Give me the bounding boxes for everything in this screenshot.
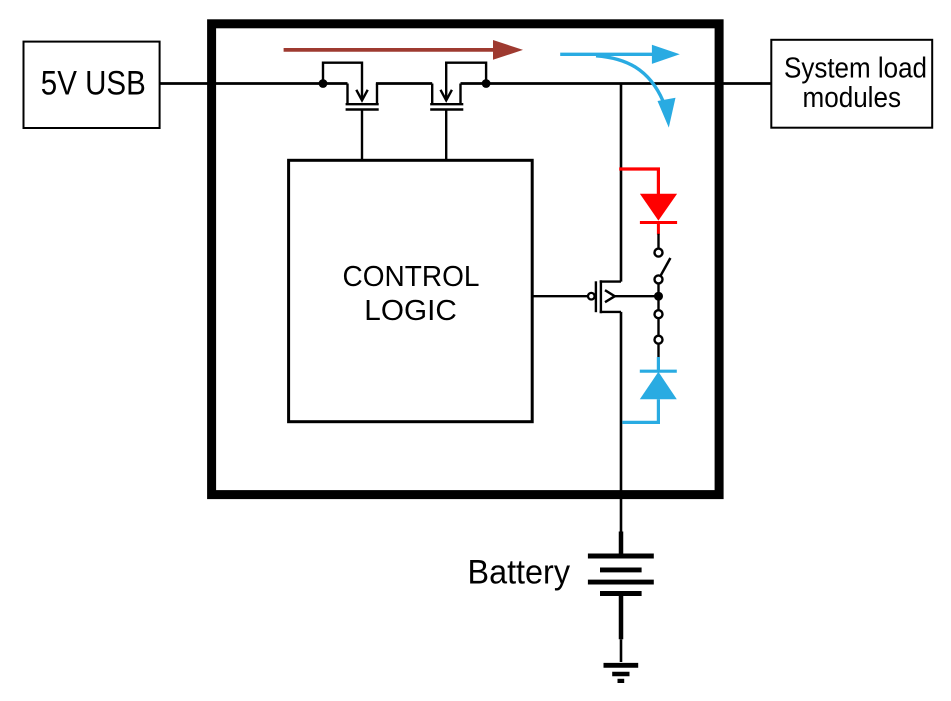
wire: Q3 source down through bottom of IC to battery xyxy=(620,312,623,534)
transistor Q1 (input PMOS pass FET) xyxy=(323,63,379,110)
current arrow: system load current (cyan straight) xyxy=(560,45,680,64)
junction node: Q2 body tie xyxy=(482,79,491,88)
battery BT1 xyxy=(588,532,654,640)
5V USB source box xyxy=(24,42,160,128)
svg-text:LOGIC: LOGIC xyxy=(364,295,457,327)
diode D1 (red, discharge path) xyxy=(619,169,677,235)
CONTROL LOGIC block U1 xyxy=(289,160,533,421)
wire: Q3 source tap to switch midpoint xyxy=(615,295,659,297)
switch S1 (open switch chain) xyxy=(655,249,671,293)
wire: Q1 drain to Q2 source xyxy=(376,82,432,85)
wire: D1 cathode to switch S1 xyxy=(657,234,659,249)
ground xyxy=(604,665,639,681)
transistor Q2 (output PMOS pass FET) xyxy=(430,63,486,110)
wire: Q2 gate lead to control logic xyxy=(445,110,447,161)
current arrow: battery charge current (cyan curved) xyxy=(596,56,676,128)
junction node: Q1 body tie xyxy=(319,79,328,88)
Q3 gate bubble xyxy=(588,293,595,300)
outer IC boundary box xyxy=(212,24,719,495)
transistor Q3 (battery NMOS FET) xyxy=(596,280,621,313)
junction node: switch midpoint / Q3 source xyxy=(654,292,663,301)
svg-text:5V USB: 5V USB xyxy=(41,64,146,102)
wire: control logic to Q3 gate xyxy=(532,295,588,297)
svg-text:CONTROL: CONTROL xyxy=(343,261,480,293)
svg-text:Battery: Battery xyxy=(468,554,571,592)
System load modules box xyxy=(771,40,932,128)
current arrow: USB input current (dark red) xyxy=(284,40,523,60)
wire: Q1 gate lead to control logic xyxy=(361,110,363,161)
switch S2 (lower contacts) xyxy=(655,296,663,358)
wire: battery negative to ground xyxy=(620,639,623,662)
wire: 5V USB to Q1 source xyxy=(160,82,348,85)
wire: battery rail from system bus down to Q3 drain xyxy=(620,84,623,282)
svg-text:modules: modules xyxy=(803,82,902,114)
wire: Q2 drain to System load modules xyxy=(461,82,772,85)
svg-text:System load: System load xyxy=(784,53,927,85)
diode D2 (blue, charge path) xyxy=(622,357,676,422)
